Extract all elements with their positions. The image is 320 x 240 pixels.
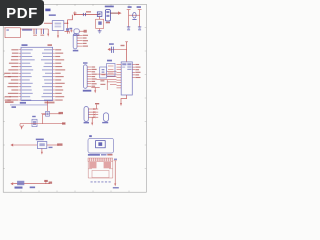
pin R5 xyxy=(45,63,62,64)
label below wire xyxy=(49,147,53,148)
power +5V arrow xyxy=(73,11,76,14)
transistor U3 body xyxy=(121,62,132,95)
pin U3-R3 xyxy=(132,69,139,70)
label net under IC right xyxy=(45,102,55,104)
label C9 xyxy=(109,43,114,45)
wire blue net xyxy=(10,104,48,106)
label IC1 value xyxy=(48,44,53,46)
pin L5 xyxy=(9,63,30,64)
power node VCC xyxy=(125,42,128,62)
connector X3 power jack xyxy=(5,28,20,38)
pin R1 xyxy=(44,49,61,50)
label JP2 xyxy=(73,50,79,52)
wire +5V to JP2 xyxy=(65,30,73,34)
pin X2-5 xyxy=(87,76,95,77)
pin JP2-4 xyxy=(77,43,87,44)
pin L1 xyxy=(11,49,32,50)
label shield net xyxy=(95,103,99,104)
wire to arrow xyxy=(110,12,118,14)
label D2 xyxy=(30,187,35,189)
pin R2 xyxy=(42,53,63,54)
connector USB shield right xyxy=(103,113,108,122)
pin U3-L9 xyxy=(117,84,122,86)
pin L8 xyxy=(11,73,30,74)
node shield junction xyxy=(114,159,117,161)
label X2 xyxy=(83,62,88,63)
label blue net xyxy=(12,106,17,108)
label X1 xyxy=(89,135,92,137)
pin L13 xyxy=(11,89,31,90)
pin L3 xyxy=(11,56,32,57)
pin L4 xyxy=(11,59,35,60)
crystal Y1 xyxy=(32,119,37,126)
pin U3-L6 xyxy=(117,77,122,79)
power arrow left xyxy=(108,48,111,51)
label Q2 xyxy=(107,60,112,62)
pin L10 xyxy=(11,79,30,80)
pin shield-2 xyxy=(88,111,98,113)
pin U3-L8 xyxy=(117,82,122,84)
pin R7 xyxy=(42,69,65,70)
pin X2-2 xyxy=(87,69,96,70)
pin X2-3 xyxy=(87,71,95,72)
ground GND7 xyxy=(94,88,96,94)
pin R11 xyxy=(45,83,65,84)
USB footprint pads xyxy=(88,158,113,161)
node +5V junction xyxy=(67,23,68,24)
label net above rail xyxy=(86,11,91,12)
pin JP2-5 xyxy=(77,46,88,47)
wire reset tick xyxy=(45,180,47,184)
wire shield top xyxy=(96,105,98,109)
label GND under IC xyxy=(20,102,26,104)
label Y1 xyxy=(32,116,36,117)
fuse F2 xyxy=(37,142,46,149)
connector X1 USB symbol xyxy=(88,138,114,153)
wire U3 ground xyxy=(121,95,127,103)
pin L15 xyxy=(9,96,30,97)
label F2 xyxy=(36,139,44,141)
resistor R3 xyxy=(46,111,50,116)
label crystal net end xyxy=(62,122,66,124)
frame border xyxy=(3,4,146,192)
label RESET xyxy=(15,187,23,189)
wire IC to R3 xyxy=(47,101,49,112)
pin L2 xyxy=(12,53,31,54)
pin X2-9 xyxy=(87,86,95,87)
capacitor C4 in box xyxy=(96,19,104,28)
pin shield-1 xyxy=(88,108,98,110)
pin X2-6 xyxy=(87,78,96,79)
label reset net xyxy=(44,180,48,182)
wire regulator input xyxy=(44,22,52,24)
pin U3-L5 xyxy=(117,74,122,76)
ground GND6 xyxy=(20,124,23,130)
crystal Q1 xyxy=(132,12,136,19)
op-amp U1 ATMEGA328 body xyxy=(21,47,53,100)
ground GND1 xyxy=(47,29,49,37)
label C8 xyxy=(100,80,105,85)
pin R12 xyxy=(42,86,62,87)
ground GND2 xyxy=(57,30,59,38)
ground GND8 xyxy=(120,103,122,106)
pin X2-8 xyxy=(87,83,96,84)
pin L16 xyxy=(7,100,31,101)
label USB pins xyxy=(88,154,113,156)
wire crystal net xyxy=(20,123,65,125)
pin L11 xyxy=(8,83,32,84)
pin R13 xyxy=(44,89,64,90)
wire USB shield rail xyxy=(114,161,116,184)
resonator Q2 box xyxy=(107,64,115,77)
label net right xyxy=(59,112,64,114)
label SHIELD1 xyxy=(84,122,89,124)
label IC1 xyxy=(22,44,28,46)
label net at U3 VCC xyxy=(121,45,125,46)
connector JP2 xyxy=(73,34,77,49)
wire +5V riser xyxy=(68,15,73,23)
pin JP2-2 xyxy=(77,37,87,38)
capacitor C2 xyxy=(40,29,44,36)
pin shield-3 xyxy=(88,114,98,116)
pin U3-L10 xyxy=(117,87,122,89)
pin X2-7 xyxy=(87,81,95,82)
pin U3-R4 xyxy=(132,72,140,73)
diode D2 xyxy=(17,181,24,185)
pin JP2-3 xyxy=(77,40,88,41)
pin shield-4 xyxy=(88,116,98,118)
wire long nets left mid xyxy=(4,73,11,78)
pin R8 xyxy=(45,73,61,74)
regulator IC2 78M05 xyxy=(52,21,64,31)
pin R15 xyxy=(42,96,65,97)
pin U3-R5 xyxy=(132,74,139,75)
label below SJ1 xyxy=(106,22,110,24)
pin L9 xyxy=(8,76,32,77)
pin R14 xyxy=(43,93,62,94)
capacitor C1 xyxy=(33,29,37,36)
capacitor C3 xyxy=(66,23,69,34)
ground GND4 xyxy=(127,26,130,31)
pin U3-L7 xyxy=(117,79,122,81)
capacitor C5 branch xyxy=(127,10,131,26)
connector X2 ICSP xyxy=(83,65,87,89)
pin L12 xyxy=(7,86,31,87)
ground GND11 xyxy=(41,149,43,155)
pin R6 xyxy=(44,66,63,67)
pin U3-R2 xyxy=(132,67,140,68)
label reset end xyxy=(49,182,53,184)
label 78M05 value xyxy=(49,14,56,16)
pin U3-L2 xyxy=(117,66,122,68)
ground GND3 xyxy=(98,29,102,34)
label IN text xyxy=(45,9,50,12)
wire regulator output xyxy=(64,22,68,24)
wire crystal rail xyxy=(129,14,140,16)
power arrow left VIN xyxy=(10,144,37,147)
label Z1 xyxy=(73,34,79,36)
label C6 xyxy=(137,6,141,8)
pin L6 xyxy=(11,66,31,67)
label ICSP xyxy=(83,90,92,92)
diode D3 xyxy=(97,12,102,19)
wire net to U3 xyxy=(106,80,108,90)
connector USB shield left xyxy=(84,107,88,122)
label C5 xyxy=(128,6,132,8)
wire riser to crystal net xyxy=(43,114,46,123)
USB footprint body xyxy=(88,161,113,178)
pin JP2-1 xyxy=(77,35,88,36)
connector SJ1 xyxy=(105,10,110,22)
wire VIN net xyxy=(20,28,48,30)
label net out xyxy=(57,143,62,145)
pin R3 xyxy=(43,56,60,57)
wire long nets left bottom xyxy=(5,96,14,103)
pin L7 xyxy=(8,69,33,70)
capacitor C8 box xyxy=(100,67,107,78)
pin U3-L1 xyxy=(117,64,122,66)
pin X2-4 xyxy=(87,74,96,75)
pin L14 xyxy=(8,93,33,94)
pin R16 xyxy=(44,100,63,101)
wire R3 net xyxy=(41,113,60,115)
wire USBVCC rail xyxy=(74,14,100,16)
wire nets to ICSP xyxy=(97,72,117,85)
pin R4 xyxy=(41,59,64,60)
ground GND5 xyxy=(138,26,141,31)
power arrow left RESET xyxy=(10,182,49,185)
wire cap branch xyxy=(110,48,126,50)
wire F2 out xyxy=(47,144,59,146)
wire ICSP gnd xyxy=(91,87,99,89)
USB footprint pins xyxy=(91,181,111,182)
capacitor C6 branch xyxy=(138,10,142,26)
pin U3-L4 xyxy=(117,71,122,73)
ground GND10 xyxy=(113,183,119,188)
pin X2-1 xyxy=(87,66,95,67)
pin R9 xyxy=(43,76,64,77)
label TP text xyxy=(105,6,114,8)
label M7 diode xyxy=(22,29,32,31)
pin R10 xyxy=(44,79,61,80)
pin U3-R1 xyxy=(132,64,139,65)
pin U3-L3 xyxy=(117,69,122,71)
label C3 value xyxy=(69,28,72,30)
capacitor C9 xyxy=(111,47,113,53)
power arrow right xyxy=(118,11,122,14)
ground GND9 xyxy=(91,117,93,125)
fuse F1 xyxy=(83,13,85,16)
pin U3-R6 xyxy=(132,77,140,78)
label SHIELD2 xyxy=(102,122,108,123)
varistor Z1 xyxy=(74,29,87,34)
